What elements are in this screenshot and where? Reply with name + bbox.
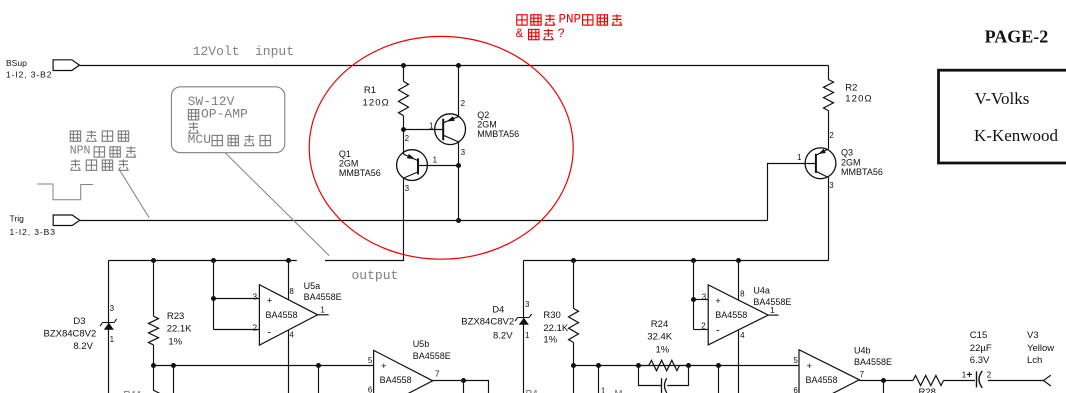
svg-text:R1: R1 (364, 85, 376, 96)
callout box SW-12V (171, 87, 284, 153)
svg-text:V3: V3 (1027, 330, 1039, 341)
wire U4a pin4 (738, 330, 740, 393)
node B junction Q1b/Q2c (456, 163, 461, 168)
node rail-R30 junction (571, 258, 576, 263)
svg-text:R23: R23 (167, 311, 184, 322)
svg-text:BA4558E: BA4558E (753, 297, 791, 307)
svg-text:PAGE-2: PAGE-2 (985, 26, 1049, 46)
wire left upper rail (109, 260, 297, 262)
svg-text:7: 7 (435, 370, 440, 379)
svg-text:Q2: Q2 (477, 110, 489, 120)
svg-text:12Volt: 12Volt (193, 44, 240, 59)
svg-text:BA4558: BA4558 (806, 375, 838, 385)
svg-text:MMBTA56: MMBTA56 (339, 168, 381, 178)
node rail-U5a-in junction (211, 258, 216, 263)
legend box (939, 70, 1066, 163)
svg-text:BA4558E: BA4558E (413, 351, 451, 361)
wire R24 right lead (680, 365, 689, 367)
wire U4a input branch (693, 261, 695, 330)
svg-text:NPN: NPN (70, 144, 91, 157)
wire C15 to V3 (988, 380, 1044, 382)
resistor R2 (828, 66, 830, 80)
wire Q3 collector down to rail (828, 178, 830, 261)
svg-text:3: 3 (829, 181, 834, 190)
resistor R28 (913, 376, 944, 386)
wire branch below rail 5 (718, 366, 720, 393)
capacitor below R24 (639, 366, 689, 386)
svg-text:C15: C15 (970, 330, 987, 341)
wire U4a pin8 (738, 261, 740, 301)
svg-text:1-I2, 3-B2: 1-I2, 3-B2 (6, 70, 52, 80)
node rail-U4a-in junction (691, 258, 696, 263)
svg-text:5: 5 (793, 356, 798, 365)
node U5b out branch (461, 378, 466, 383)
svg-text:1: 1 (320, 305, 325, 314)
svg-text:+: + (967, 370, 973, 381)
svg-text:1: 1 (525, 331, 530, 340)
wire R24 left lead (639, 365, 649, 367)
wire branch below rail 2 (318, 366, 320, 393)
svg-text:120Ω: 120Ω (845, 93, 872, 104)
svg-text:2GM: 2GM (841, 157, 861, 167)
svg-text:2: 2 (405, 134, 410, 143)
callout text 或 (188, 122, 198, 133)
svg-text:2: 2 (461, 99, 466, 108)
svg-text:120Ω: 120Ω (363, 98, 390, 109)
svg-text:&: & (516, 27, 524, 41)
svg-text:BA4558: BA4558 (715, 310, 747, 320)
diode D3 zener (100, 319, 117, 326)
svg-text:K-Kenwood: K-Kenwood (974, 126, 1059, 145)
svg-text:2GM: 2GM (339, 159, 359, 169)
svg-text:BSup: BSup (6, 58, 27, 68)
wire U5b output (433, 381, 489, 393)
svg-text:R30: R30 (543, 310, 560, 321)
svg-text:+: + (715, 296, 721, 307)
svg-text:4: 4 (289, 330, 294, 339)
BSup connector (53, 60, 79, 71)
node rail-R23 junction (151, 258, 156, 263)
svg-text:5: 5 (368, 356, 373, 365)
resistor R1 (403, 66, 405, 82)
U5a output stub (318, 314, 329, 316)
svg-text:4: 4 (740, 331, 745, 340)
callout text 电阻接地 (70, 159, 80, 170)
svg-text:3: 3 (702, 292, 707, 301)
wire U4a pin2 (694, 329, 709, 331)
svg-text:8: 8 (289, 287, 294, 296)
svg-text:BA4558E: BA4558E (854, 357, 892, 367)
node R24 right junction (686, 363, 691, 368)
svg-text:1%: 1% (168, 337, 182, 348)
svg-text:-: - (268, 327, 272, 339)
transistor Q2 (435, 114, 466, 145)
svg-text:MMBTA56: MMBTA56 (841, 167, 883, 177)
wire Q1 emitter from node A (403, 130, 405, 155)
svg-text:BA4558E: BA4558E (304, 292, 342, 302)
wire branch below rail 3 (573, 366, 575, 393)
wire Trig up to Q3 base (768, 164, 816, 221)
transistor Q3 (805, 148, 836, 179)
svg-text:3: 3 (405, 184, 410, 193)
svg-text:D4: D4 (492, 305, 504, 316)
node Trig-Q2c junction (456, 218, 461, 223)
node U4b out branch (881, 378, 886, 383)
wire right upper rail (524, 260, 829, 262)
svg-text:Trig: Trig (10, 214, 25, 224)
callout leader line to output (225, 153, 329, 256)
node 12V-Q2e junction (456, 63, 461, 68)
pulse waveform symbol (37, 184, 93, 200)
svg-text:?: ? (558, 27, 566, 41)
svg-text:3: 3 (110, 304, 115, 313)
svg-text:8.2V: 8.2V (73, 341, 93, 352)
svg-text:3: 3 (525, 300, 530, 309)
wire R28 to C15 (944, 380, 976, 382)
wire right lower rail (574, 365, 800, 367)
svg-text:M: M (615, 389, 623, 393)
svg-text:2: 2 (701, 321, 706, 330)
svg-text:R44: R44 (124, 390, 141, 393)
wire branch below rail 4 (598, 366, 600, 393)
svg-text:2: 2 (987, 371, 992, 380)
resistor R24 (649, 360, 680, 370)
svg-text:U4b: U4b (854, 346, 871, 356)
svg-text:BA4558: BA4558 (380, 375, 412, 385)
svg-text:PNP: PNP (559, 12, 582, 26)
resistor R23 (153, 261, 155, 317)
node lower rail branch2 junction (596, 363, 601, 368)
svg-text:MCU: MCU (188, 132, 211, 147)
svg-text:8.2V: 8.2V (493, 330, 513, 341)
svg-text:BZX84C8V2: BZX84C8V2 (461, 317, 514, 328)
wire Q2 emitter to 12V (458, 66, 460, 117)
wire R23 lower stub (154, 366, 161, 393)
svg-text:32.4K: 32.4K (647, 332, 672, 343)
op-amp U5a (259, 285, 317, 345)
node lower rail R30 junction (571, 363, 576, 368)
svg-text:1%: 1% (656, 345, 670, 356)
callout text 给OP-AMP (188, 110, 198, 120)
svg-text:R24: R24 (651, 319, 668, 330)
node U4a pin3 junction (691, 297, 696, 302)
transistor Q1 (397, 150, 428, 181)
node R24 left junction (636, 363, 641, 368)
node 12V-R1 junction (401, 63, 406, 68)
svg-text:1: 1 (797, 153, 802, 162)
wire Q1 collector to output (325, 178, 404, 260)
svg-text:2GM: 2GM (477, 119, 497, 129)
callout leader line to Trig (119, 170, 149, 218)
svg-text:-: - (716, 325, 720, 337)
Trig connector (53, 215, 80, 226)
svg-text:1: 1 (770, 306, 775, 315)
wire branch below rail 1 (173, 366, 175, 393)
op-amp U4a (708, 285, 768, 345)
svg-text:1: 1 (601, 386, 606, 393)
wire U5a pin8 (288, 261, 290, 300)
svg-text:input: input (255, 44, 294, 59)
red note line1 CJK 的缘由 (583, 15, 593, 25)
wire U4a pin3 (694, 299, 709, 301)
svg-text:Lch: Lch (1027, 355, 1042, 366)
svg-text:2: 2 (829, 131, 834, 140)
svg-text:22.1K: 22.1K (543, 323, 568, 334)
connector V3 (1044, 375, 1051, 386)
svg-text:+: + (381, 361, 387, 372)
svg-text:Q1: Q1 (339, 149, 351, 159)
svg-text:8: 8 (740, 289, 745, 298)
svg-text:22µF: 22µF (970, 343, 992, 354)
svg-text:6: 6 (793, 386, 798, 393)
op-amp U5b (374, 350, 433, 393)
node A junction R1/Q1/Q2 (401, 127, 406, 132)
svg-text:U4a: U4a (753, 285, 770, 295)
svg-text:7: 7 (860, 370, 865, 379)
svg-text:OP-AMP: OP-AMP (201, 107, 248, 122)
svg-text:+: + (267, 296, 273, 307)
wire U5a pin4 (288, 330, 290, 393)
node lower rail branch junction (171, 363, 176, 368)
red annotation ellipse (309, 36, 573, 259)
capacitor C15 (976, 371, 978, 387)
node rail-U4a-pin8 junction (736, 258, 741, 263)
diode D4 zener (515, 314, 532, 321)
svg-text:22.1K: 22.1K (167, 324, 192, 335)
callout text 通过一个 (70, 131, 80, 141)
wire U5b out branch down (463, 381, 465, 393)
wire Q1 base to node B (418, 165, 459, 167)
svg-text:2: 2 (253, 323, 258, 332)
svg-text:1%: 1% (543, 335, 557, 346)
svg-text:+: + (807, 361, 813, 372)
svg-text:BA4558: BA4558 (266, 310, 298, 320)
op-amp U4b (799, 350, 859, 393)
node lower rail out junction (316, 363, 321, 368)
svg-text:R28: R28 (919, 387, 936, 393)
svg-text:1: 1 (110, 335, 115, 344)
wire 12V top rail (79, 65, 828, 67)
svg-text:MMBTA56: MMBTA56 (477, 129, 519, 139)
red note line1 CJK 用两个 (517, 15, 527, 25)
svg-text:Q3: Q3 (841, 148, 853, 158)
svg-text:BZX84C8V2: BZX84C8V2 (44, 328, 97, 339)
svg-text:R4: R4 (526, 389, 538, 393)
wire U4b output (859, 380, 913, 382)
svg-text:6.3V: 6.3V (970, 355, 990, 366)
wire Trig line (80, 220, 768, 222)
wire U5a input branch (213, 261, 215, 330)
resistor R30 (573, 261, 575, 309)
svg-text:3: 3 (253, 292, 258, 301)
wire U5a pin3 (214, 298, 260, 300)
node rail-U5a-pin8 junction (286, 258, 291, 263)
svg-text:1: 1 (433, 156, 438, 165)
wire Q2 collector down (458, 142, 460, 221)
wire D3 branch vertical (108, 261, 110, 393)
node lower rail branch3 junction (716, 363, 721, 368)
node U5a pin3 junction (211, 296, 216, 301)
svg-text:3: 3 (461, 148, 466, 157)
wire U4b out branch down (883, 381, 885, 393)
svg-text:U5a: U5a (304, 281, 321, 291)
node lower rail R23 junction (151, 363, 156, 368)
wire node A to Q2 base (404, 129, 444, 131)
svg-text:Yellow: Yellow (1027, 343, 1054, 354)
svg-text:R2: R2 (845, 82, 857, 93)
wire U5a pin2 (214, 329, 260, 331)
wire D4 branch vertical (523, 261, 525, 393)
svg-text:6: 6 (368, 385, 373, 393)
svg-text:U5b: U5b (413, 339, 430, 349)
svg-text:output: output (352, 268, 399, 283)
svg-text:D3: D3 (73, 316, 85, 327)
svg-text:V-Volks: V-Volks (975, 89, 1030, 108)
svg-text:1: 1 (429, 121, 434, 130)
U4a output stub (768, 314, 778, 316)
wire left lower rail (154, 365, 374, 367)
svg-text:1-I2, 3-B3: 1-I2, 3-B3 (10, 227, 56, 237)
